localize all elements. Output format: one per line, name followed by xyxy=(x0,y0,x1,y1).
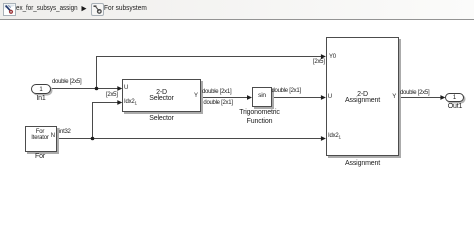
label Selector xyxy=(122,115,201,122)
junction dot on For wire xyxy=(91,137,95,141)
arrowhead into Selector U xyxy=(117,86,122,91)
wire In1 to Selector U xyxy=(51,88,121,90)
port Y xyxy=(194,93,198,99)
port Y0 xyxy=(329,54,336,60)
wire branch up to Assignment Y0 xyxy=(97,57,324,89)
arrowhead into sin xyxy=(247,95,252,100)
signal label double [2x1] after sin xyxy=(272,88,301,94)
breadcrumb separator arrow xyxy=(81,6,87,12)
label In1 xyxy=(26,95,56,102)
arrowhead into Assignment U xyxy=(321,95,326,100)
wire branch up to Selector Idx2 xyxy=(93,103,121,139)
arrowhead into Out1 xyxy=(440,95,445,100)
wire Selector Y to sin xyxy=(202,97,251,99)
signal label double [2x1] above Selector out xyxy=(202,89,231,95)
For Iterator block xyxy=(25,126,57,152)
port U xyxy=(124,85,128,91)
port Idx2 xyxy=(124,99,137,106)
label Trigonometric Function xyxy=(220,109,300,116)
signal label double [2x5] from In1 xyxy=(52,79,81,85)
signal label [2x5] before Selector U xyxy=(106,92,118,98)
wire For to Assignment Idx2 xyxy=(57,138,325,140)
arrowhead into Assignment Y0 xyxy=(321,54,326,59)
Selector block xyxy=(122,79,201,112)
wires svg xyxy=(0,0,474,183)
junction dot on In1 wire xyxy=(95,87,99,91)
outport Out1 xyxy=(445,93,464,102)
port Y xyxy=(392,94,396,100)
signal label int32 xyxy=(59,129,71,135)
port Idx2 xyxy=(328,133,341,140)
signal label double [2x1] below Selector out xyxy=(203,100,232,106)
breadcrumb bar xyxy=(0,0,474,20)
port N xyxy=(51,133,55,139)
label For xyxy=(24,153,56,160)
port U xyxy=(328,94,332,100)
arrowhead into Selector Idx2 xyxy=(117,100,122,105)
inport In1 xyxy=(31,84,51,94)
arrowhead into Assignment Idx2 xyxy=(321,136,326,141)
model icon xyxy=(3,3,16,16)
wire Assignment Y to Out1 xyxy=(400,97,444,99)
subsystem icon xyxy=(91,3,104,16)
label Assignment xyxy=(326,160,399,167)
signal label [2x5] before Assignment Y0 xyxy=(313,59,325,65)
wire sin to Assignment U xyxy=(272,97,324,99)
breadcrumb text 1 xyxy=(16,3,78,12)
Assignment block xyxy=(326,37,399,156)
signal label double [2x5] after Assignment xyxy=(400,90,429,96)
label Out1 xyxy=(440,103,470,110)
breadcrumb text 2 xyxy=(104,3,147,12)
Trigonometric Function block xyxy=(252,87,272,107)
